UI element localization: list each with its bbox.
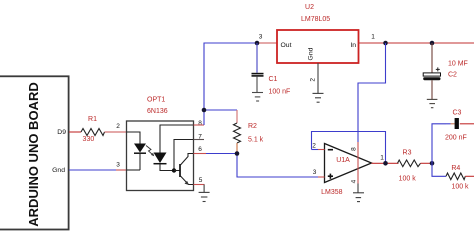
svg-text:10 MF: 10 MF [448, 61, 468, 68]
svg-text:6: 6 [198, 146, 202, 153]
svg-text:2: 2 [310, 78, 317, 82]
svg-text:5.1 k: 5.1 k [248, 136, 264, 143]
svg-text:1: 1 [380, 155, 384, 162]
svg-text:R2: R2 [248, 123, 257, 130]
svg-text:C1: C1 [269, 76, 278, 83]
svg-text:D9: D9 [57, 129, 66, 136]
svg-text:3: 3 [259, 33, 263, 40]
svg-text:U2: U2 [305, 4, 314, 11]
svg-text:200 nF: 200 nF [445, 135, 467, 142]
svg-text:1: 1 [371, 34, 375, 41]
svg-text:6N136: 6N136 [147, 108, 168, 115]
svg-text:100 nF: 100 nF [269, 89, 291, 96]
svg-text:U1A: U1A [336, 157, 350, 164]
svg-text:2: 2 [116, 123, 120, 130]
svg-text:Gnd: Gnd [308, 47, 315, 60]
svg-text:8: 8 [198, 120, 202, 127]
svg-text:In: In [350, 42, 356, 49]
svg-text:330: 330 [83, 136, 95, 143]
svg-text:R4: R4 [451, 165, 460, 172]
svg-text:100 k: 100 k [399, 176, 417, 183]
svg-text:ARDUINO UNO BOARD: ARDUINO UNO BOARD [26, 82, 41, 226]
svg-text:2: 2 [312, 142, 316, 149]
svg-text:5: 5 [199, 177, 203, 184]
svg-text:Out: Out [281, 42, 292, 49]
svg-text:3: 3 [116, 161, 120, 168]
svg-text:8: 8 [351, 147, 358, 151]
svg-text:LM78L05: LM78L05 [301, 16, 330, 23]
svg-text:R3: R3 [403, 149, 412, 156]
svg-text:R1: R1 [88, 116, 97, 123]
svg-text:100 k: 100 k [451, 184, 469, 191]
svg-text:C3: C3 [453, 109, 462, 116]
svg-text:LM358: LM358 [321, 189, 343, 196]
svg-text:3: 3 [313, 169, 317, 176]
svg-text:OPT1: OPT1 [147, 97, 165, 104]
svg-text:C2: C2 [448, 72, 457, 79]
svg-text:Gnd: Gnd [52, 167, 65, 174]
svg-text:4: 4 [351, 179, 358, 183]
